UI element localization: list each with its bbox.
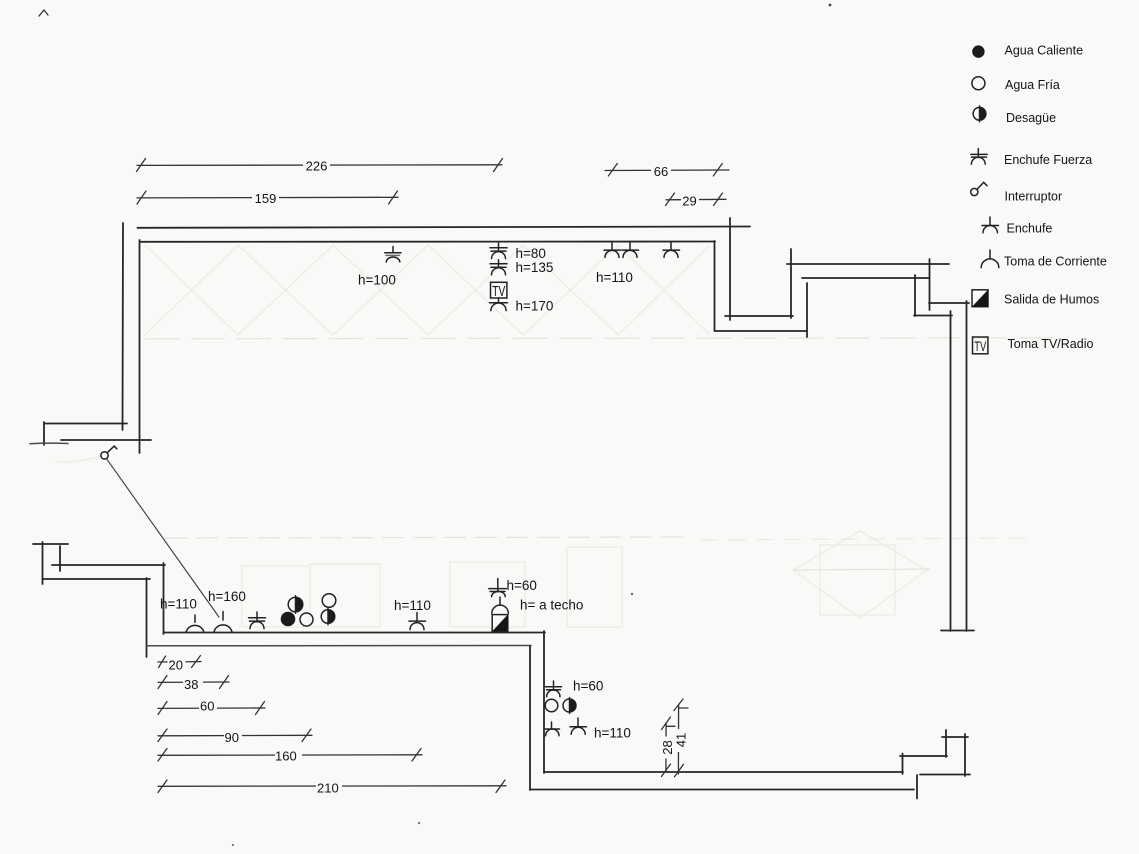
notch: bottom outer horizontal <box>715 330 807 332</box>
bottom wall: left inner vertical <box>163 563 165 634</box>
right wall: end cap <box>941 630 974 632</box>
legend drain half circle <box>973 106 986 122</box>
step: outer horizontal <box>920 774 970 776</box>
drain symbol (desague) circle half-filled 1 <box>288 596 303 613</box>
dimension 60 line <box>158 707 265 709</box>
right wall: inner vertical <box>950 311 952 631</box>
step: top cap <box>942 736 968 738</box>
dimension 38 left tick <box>158 676 167 689</box>
upper-right jog: inner vertical <box>914 275 916 316</box>
dimension 28 vertical line <box>665 723 667 771</box>
dimension 60 left tick <box>158 702 167 715</box>
svg-text:Toma de Corriente: Toma de Corriente <box>1004 254 1107 268</box>
svg-text:h=60: h=60 <box>573 679 603 694</box>
outlet trio 1 on top wall <box>604 243 621 258</box>
notch: bottom inner horizontal <box>725 315 793 317</box>
legend power outlet symbol <box>971 149 987 165</box>
dimension 66 line <box>605 169 729 172</box>
dimension 28 top tick <box>662 717 671 730</box>
upper-right jog: outer vertical <box>929 259 931 310</box>
upper-right jog: outer horizontal <box>929 302 969 304</box>
faint cabinet box 2 <box>310 564 380 627</box>
dimension 160 line <box>158 754 422 757</box>
faint counter line across top room <box>145 338 1058 339</box>
power outlet (enchufe fuerza) h=80 <box>490 243 507 259</box>
svg-text:41: 41 <box>673 733 688 747</box>
drain half-filled circle right room <box>563 698 576 714</box>
TV/radio socket box on top wall <box>491 282 507 302</box>
step: inner vertical 1 <box>902 754 904 775</box>
legend TV socket symbol <box>973 337 988 354</box>
dimension 66 right tick <box>713 164 722 177</box>
svg-text:h=160: h=160 <box>208 589 246 604</box>
dimension 210 line <box>158 785 506 788</box>
dimension 160 right tick <box>412 749 421 762</box>
lower-left wing: inner horizontal <box>52 564 165 566</box>
dimension 210 left tick <box>158 780 167 793</box>
upper-right wall: outer horizontal <box>787 263 949 265</box>
svg-text:Interruptor: Interruptor <box>1005 190 1063 204</box>
dimension 210 right tick <box>496 780 505 793</box>
svg-text:Salida de Humos: Salida de Humos <box>1004 292 1099 306</box>
lower-left wing: short tick vertical <box>59 546 61 571</box>
notch: right vertical outer <box>790 249 792 318</box>
outlet trio 3 on top wall <box>663 243 680 258</box>
bottom-right: outer bottom horizontal <box>530 789 914 791</box>
svg-text:h=80: h=80 <box>516 246 546 261</box>
svg-text:Agua Caliente: Agua Caliente <box>1005 44 1084 58</box>
svg-text:Toma TV/Radio: Toma TV/Radio <box>1008 337 1094 351</box>
upper-right jog: inner horizontal <box>914 315 952 317</box>
svg-text:159: 159 <box>255 191 277 206</box>
faint line through diamond <box>793 569 930 570</box>
svg-text:38: 38 <box>184 677 198 692</box>
legend switch symbol <box>971 182 987 195</box>
cold water circle right room <box>545 699 558 712</box>
step: inner horizontal 1 <box>900 755 947 757</box>
faint tile X pattern band in top room <box>145 245 710 335</box>
cold water (agua fria) open circle 1 <box>300 613 313 626</box>
faint upper cabinet dashed line bottom kitchen <box>165 537 690 538</box>
dimension 159 right tick <box>389 191 398 204</box>
dimension 41 top tick <box>674 699 683 711</box>
svg-text:160: 160 <box>275 749 297 764</box>
upper-right wall: inner horizontal <box>802 277 929 279</box>
dimension 28 bottom tick <box>662 764 671 777</box>
svg-text:210: 210 <box>317 780 339 795</box>
svg-text:Enchufe: Enchufe <box>1007 222 1053 236</box>
legend outlet symbol <box>982 217 999 233</box>
wall: top outer line <box>138 227 751 228</box>
power outlet (enchufe fuerza) h=60 <box>489 579 507 597</box>
lower-left wing: left vertical <box>42 542 44 584</box>
dimension 66 left tick <box>608 164 617 177</box>
dimension 29 right tick <box>714 193 723 206</box>
svg-text:29: 29 <box>682 194 696 209</box>
svg-text:60: 60 <box>200 698 214 713</box>
bottom wall: left outer vertical <box>146 578 148 657</box>
faint tile X pattern band reverse <box>145 245 710 335</box>
switch (interruptor) on plan <box>101 446 117 459</box>
dimension 29 line <box>666 198 726 201</box>
svg-text:h=60: h=60 <box>507 578 537 593</box>
doorway: upper threshold line <box>44 423 127 425</box>
drain symbol (desague) circle half-filled 2 <box>321 608 335 625</box>
dimension 20 line <box>158 661 201 663</box>
outlet (enchufe) h=170 <box>490 303 508 311</box>
power outlet (enchufe fuerza) h=135 <box>490 260 507 275</box>
power outlet (enchufe fuerza) on bottom wall <box>249 612 266 629</box>
current tap (toma de corriente) 2 on bottom wall <box>214 612 232 632</box>
hot water (agua caliente) filled circle <box>281 612 296 627</box>
cold water (agua fria) open circle 2 <box>322 594 336 608</box>
doorway: lower stub line <box>30 442 68 445</box>
svg-text:h=110: h=110 <box>160 597 197 612</box>
right wall: outer vertical <box>966 301 968 631</box>
bottom-right: inner vertical <box>543 631 545 773</box>
dimension 160 left tick <box>158 749 167 762</box>
notch: right vertical inner <box>806 283 808 337</box>
dimension 159 line <box>137 196 398 199</box>
svg-text:h=100: h=100 <box>358 273 396 288</box>
faint diamond in right room <box>793 531 927 618</box>
step: outer vertical left <box>916 775 918 799</box>
scan speck bottom2 <box>232 844 234 846</box>
dimension 20 left tick <box>159 656 166 668</box>
svg-text:226: 226 <box>306 159 328 174</box>
svg-text:TV: TV <box>492 284 505 300</box>
faint cabinet line right section <box>700 538 1030 540</box>
legend hot water filled circle <box>972 45 984 57</box>
outlet trio 2 on top wall <box>622 243 639 258</box>
outlet (enchufe) h=100 on top wall <box>385 247 401 262</box>
scan speck bottom <box>418 822 420 824</box>
svg-text:TV: TV <box>974 338 986 354</box>
outlet (enchufe) mid bottom wall <box>409 613 426 630</box>
faint cabinet box 3 <box>450 562 525 627</box>
dimension 38 line <box>158 681 229 683</box>
dimension 159 left tick <box>137 191 146 204</box>
wall: left inner vertical <box>139 240 141 453</box>
scan speck top left <box>39 10 48 16</box>
dimension 28 top stub <box>667 725 676 727</box>
faint cabinet box 4 <box>567 547 622 627</box>
svg-text:h=110: h=110 <box>594 726 631 741</box>
svg-text:Enchufe Fuerza: Enchufe Fuerza <box>1004 153 1092 167</box>
lower-left wing: top line <box>33 543 68 545</box>
faint cabinet box 1 <box>242 566 310 627</box>
svg-text:Agua Fría: Agua Fría <box>1005 78 1060 92</box>
faint door swing arc near interruptor <box>55 456 101 462</box>
bottom-right: outer vertical <box>529 646 531 790</box>
dimension 60 right tick <box>256 702 265 715</box>
notch: outer vertical left <box>729 218 731 320</box>
outlet (enchufe) right room h=110 <box>570 718 587 734</box>
dimension 90 right tick <box>302 729 311 742</box>
dimension 90 line <box>158 734 312 737</box>
dimension 38 right tick <box>220 676 229 689</box>
legend cold water open circle <box>972 77 985 90</box>
step: inner vertical 2 <box>945 730 947 757</box>
svg-text:h=110: h=110 <box>596 270 633 285</box>
step: outer vertical right <box>964 734 966 776</box>
bottom wall: outer horizontal <box>147 645 532 647</box>
legend current tap symbol <box>981 250 999 268</box>
notch: inner vertical left <box>714 241 716 331</box>
bottom wall: inner horizontal <box>164 632 546 634</box>
scan speck mid <box>631 593 633 595</box>
outlet (enchufe) right room on wall <box>545 722 560 736</box>
svg-text:20: 20 <box>169 657 183 672</box>
wall: left outer vertical <box>122 223 125 430</box>
dimension 90 left tick <box>158 729 167 742</box>
switch wire to lamp point <box>107 459 220 618</box>
dimension 20 right tick <box>192 656 201 668</box>
bottom-right: inner bottom horizontal <box>544 771 903 773</box>
doorway: middle line <box>61 439 151 441</box>
dimension 226 line <box>137 164 502 167</box>
svg-text:66: 66 <box>654 164 668 179</box>
svg-text:h=110: h=110 <box>394 598 431 613</box>
svg-text:90: 90 <box>225 730 239 745</box>
wall: top inner line <box>140 241 715 243</box>
svg-text:h= a techo: h= a techo <box>520 598 583 613</box>
dimension 29 left tick <box>666 193 675 206</box>
svg-text:Desagüe: Desagüe <box>1006 111 1056 125</box>
smoke outlet (salida de humos) square <box>492 615 508 632</box>
dimension 41 vertical line <box>677 705 679 774</box>
dimension 226 right tick <box>494 159 503 172</box>
current tap large (toma de corriente) <box>492 597 509 613</box>
svg-text:h=170: h=170 <box>516 299 554 314</box>
dimension 41 bottom tick <box>675 764 684 777</box>
lower-left wing: outer horizontal <box>43 578 151 580</box>
doorway: left jamb vertical <box>43 422 45 445</box>
faint cabinet box 5 <box>820 545 895 615</box>
power outlet (enchufe fuerza) right room h=60 <box>546 681 562 697</box>
scan speck top right <box>829 4 832 7</box>
dimension 226 left tick <box>137 159 146 172</box>
dimension 41 top stub <box>679 707 688 709</box>
current tap (toma de corriente) 1 on bottom wall <box>186 615 204 632</box>
legend smoke outlet symbol <box>972 290 988 307</box>
svg-text:h=135: h=135 <box>516 260 554 275</box>
